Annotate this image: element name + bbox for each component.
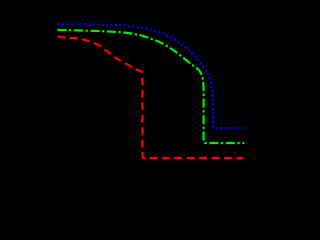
red dashed curve (bottom exclusion contour)	[57, 36, 243, 158]
plot background	[0, 0, 249, 224]
chart canvas (black background plot)	[0, 0, 249, 224]
blue dotted curve (top exclusion contour)	[58, 24, 246, 128]
green dash-dot curve (middle exclusion contour)	[57, 30, 244, 143]
